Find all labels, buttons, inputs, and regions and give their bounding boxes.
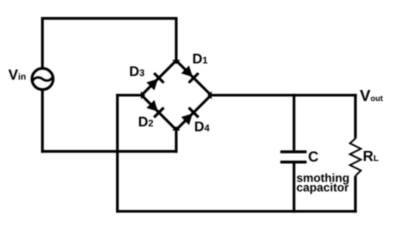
- diode D3: [146, 73, 164, 91]
- wire: bridge right node to output corner: [211, 94, 357, 97]
- wire: resistor bottom to bottom rail: [354, 176, 357, 213]
- label Vout: [360, 90, 383, 101]
- wire: Vin bottom terminal down: [41, 89, 44, 153]
- label D3: [130, 66, 144, 76]
- wire: bridge arm L-T (D3 arm): [142, 61, 177, 96]
- capacitor C bottom plate: [280, 161, 306, 164]
- sine symbol of AC source: [33, 77, 52, 80]
- wire: bridge arm B-R (D4 arm): [176, 95, 211, 130]
- capacitor C top plate: [280, 150, 306, 153]
- diode D2: [146, 99, 164, 117]
- node: bridge bottom junction: [172, 126, 180, 130]
- label D1: [193, 54, 207, 64]
- diode D4: [180, 108, 198, 126]
- wire: capacitor branch upper: [293, 94, 296, 151]
- label RL: [364, 151, 379, 161]
- wire: up to bridge bottom node: [175, 130, 178, 153]
- label smothing: [297, 173, 349, 184]
- wire: bridge arm L-B (D2 arm): [142, 95, 177, 130]
- wire: bottom rail: [116, 210, 357, 213]
- resistor RL zigzag: [350, 139, 361, 176]
- wire: capacitor branch lower: [293, 164, 296, 213]
- label D2: [139, 117, 153, 127]
- wire: Vin bottom horizontal run: [41, 150, 178, 153]
- wire: right vertical to resistor top: [354, 94, 357, 139]
- wire: left vertical down: [116, 94, 119, 213]
- node: bridge right junction: [208, 91, 212, 99]
- wire: top rail: [41, 17, 178, 20]
- AC source Vin: [32, 68, 53, 89]
- wire: down to bridge top node: [175, 17, 178, 61]
- label C: [309, 151, 318, 161]
- label Vin: [8, 69, 25, 79]
- wire: bridge left node stub: [116, 94, 142, 97]
- diode D1: [180, 65, 198, 83]
- label capacitor: [297, 183, 349, 194]
- label D4: [195, 122, 209, 132]
- node: bridge left junction: [141, 91, 145, 99]
- node: bridge top junction: [172, 60, 180, 64]
- wire: bridge arm T-R (D1 arm): [176, 61, 211, 96]
- wire: Vin top terminal up: [41, 18, 44, 68]
